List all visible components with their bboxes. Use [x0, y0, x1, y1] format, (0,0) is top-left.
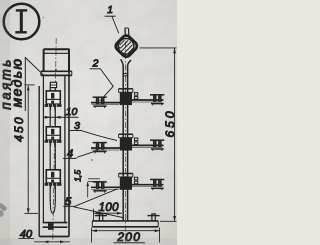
left end clamp — [93, 97, 107, 108]
arm left segment — [91, 102, 120, 104]
coupling flange — [119, 173, 133, 175]
dimension 650 — [140, 48, 177, 221]
right end clamp — [150, 180, 164, 191]
arm right segment — [131, 184, 164, 186]
dimension 100 — [93, 209, 122, 221]
svg-text:1,5: 1,5 — [73, 170, 83, 182]
left view: rod lower taper tip — [50, 200, 55, 214]
svg-text:450: 450 — [12, 115, 26, 142]
left end clamp — [93, 182, 107, 193]
svg-text:2: 2 — [92, 58, 99, 70]
coupling flange — [119, 133, 133, 135]
arm left segment — [91, 147, 120, 149]
svg-text:1: 1 — [107, 4, 113, 16]
coupling flange — [119, 88, 133, 90]
dimension 10 (rod diameter) — [44, 116, 79, 119]
left end clamp — [93, 143, 107, 154]
svg-text:медью: медью — [9, 58, 25, 108]
left view: rod — [50, 88, 55, 201]
scan smudges — [0, 17, 93, 217]
arm right segment — [131, 144, 164, 146]
rod stub above eye — [125, 28, 129, 35]
paper background — [0, 0, 177, 245]
crossarm level 2 — [91, 134, 164, 153]
pipe seam ticks — [123, 74, 129, 76]
left view: solder flange band — [41, 71, 72, 75]
coupling bolts — [134, 93, 137, 96]
right end clamp — [150, 140, 164, 151]
section symbol circle with I-beam — [4, 4, 40, 40]
arm right segment — [131, 99, 164, 101]
left view centerline — [53, 38, 56, 241]
coupling bolts — [134, 177, 137, 180]
left view: clamp box 1 — [45, 91, 62, 110]
left view: clamp box 3 — [45, 170, 62, 189]
left view: bottom plate — [39, 223, 69, 237]
left view: pole outer walls — [39, 71, 69, 236]
coupling block — [120, 138, 132, 151]
svg-text:100: 100 — [99, 202, 120, 214]
arm left segment — [91, 186, 120, 188]
base clamp left — [95, 214, 107, 221]
dimension 200 — [92, 228, 161, 243]
coupling block — [120, 92, 132, 105]
eye loop — [114, 34, 139, 59]
crossarm level 3 — [91, 174, 164, 193]
base clamp right — [148, 214, 160, 221]
right end clamp — [150, 95, 164, 106]
mast centerline — [124, 30, 126, 245]
svg-text:10: 10 — [66, 106, 78, 118]
svg-text:650: 650 — [163, 108, 177, 137]
crossarm level 1 — [91, 89, 164, 108]
leader for паять медью — [24, 57, 26, 111]
base plate — [92, 221, 158, 227]
coupling bolts — [134, 138, 137, 141]
left view: rod top cap — [50, 82, 56, 87]
coupling block — [120, 177, 132, 190]
left view: clamp box 2 — [45, 127, 62, 146]
mast pipe — [121, 59, 131, 221]
dimension 450 — [25, 85, 39, 214]
left view: top tube — [44, 49, 70, 71]
